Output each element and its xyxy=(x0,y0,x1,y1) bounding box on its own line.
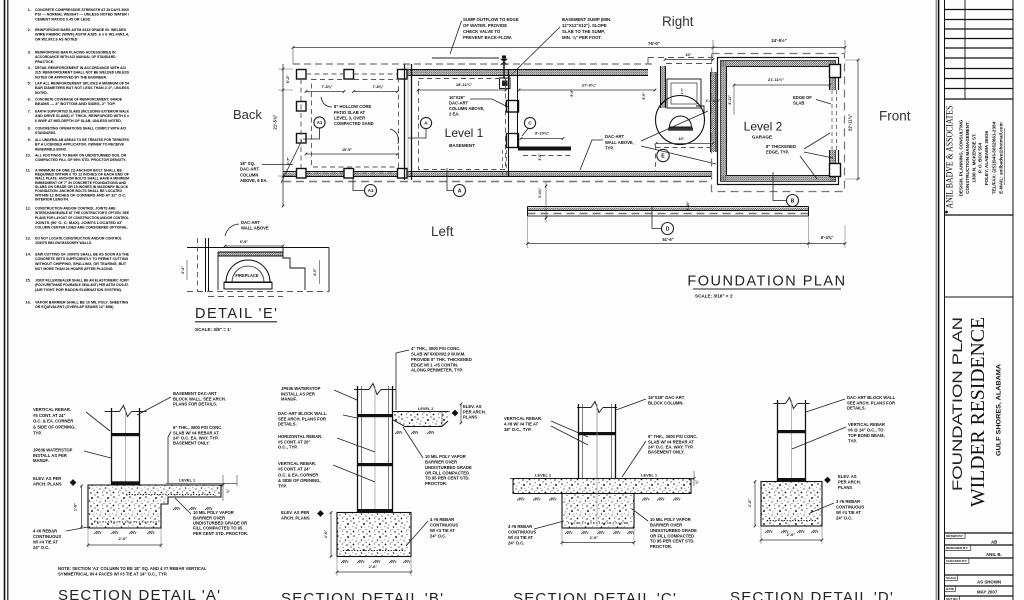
svg-text:10': 10' xyxy=(678,136,683,141)
svg-text:3'-4⅜": 3'-4⅜" xyxy=(538,188,542,199)
svg-text:24'-5½": 24'-5½" xyxy=(771,38,787,43)
svg-text:BASEMENT: BASEMENT xyxy=(449,143,475,148)
svg-text:SCALE: SCALE xyxy=(946,576,957,580)
svg-text:E-MAIL: anilbadve@hotmail.com: E-MAIL: anilbadve@hotmail.com xyxy=(999,122,1004,193)
svg-text:C: C xyxy=(528,121,532,127)
svg-text:Level 1: Level 1 xyxy=(445,126,484,140)
svg-text:CHECK VALVE TO: CHECK VALVE TO xyxy=(463,29,501,34)
svg-text:OR W2.9X2.9 AS NOTED: OR W2.9X2.9 AS NOTED xyxy=(35,37,77,42)
svg-text:COLUMN: COLUMN xyxy=(240,172,258,177)
svg-text:OR FILL COMPACTED: OR FILL COMPACTED xyxy=(425,470,469,475)
svg-text:10 MIL POLY VAPOR: 10 MIL POLY VAPOR xyxy=(650,517,691,522)
svg-text:SECTION DETAIL 'D': SECTION DETAIL 'D' xyxy=(730,589,894,600)
svg-text:STANDARDS.: STANDARDS. xyxy=(35,130,56,135)
svg-text:Back: Back xyxy=(233,107,262,122)
svg-text:OR FILL COMPACTED: OR FILL COMPACTED xyxy=(650,533,694,538)
svg-text:BARRIER OVER: BARRIER OVER xyxy=(650,522,682,527)
svg-text:MANUF.: MANUF. xyxy=(281,396,297,401)
svg-text:VERTICAL REBAR: VERTICAL REBAR xyxy=(848,422,885,427)
svg-text:PER ARCH.: PER ARCH. xyxy=(838,479,861,484)
svg-text:18" O.C., TYP.: 18" O.C., TYP. xyxy=(504,427,532,432)
svg-text:BASEMENT ONLY.: BASEMENT ONLY. xyxy=(173,441,210,446)
svg-text:AS SHOWN: AS SHOWN xyxy=(977,580,1001,585)
svg-text:NOT MORE THAN 24 HOURS AFTER P: NOT MORE THAN 24 HOURS AFTER PLACING. xyxy=(35,266,113,271)
svg-text:51'-6": 51'-6" xyxy=(662,237,673,242)
svg-text:#5 CONT. AT 24": #5 CONT. AT 24" xyxy=(33,413,65,418)
svg-text:SECTION DETAIL 'C': SECTION DETAIL 'C' xyxy=(513,590,677,600)
svg-text:DAC-ART: DAC-ART xyxy=(449,101,469,106)
svg-text:CONTINUOUS: CONTINUOUS xyxy=(430,522,458,527)
svg-text:DRAWN BY:: DRAWN BY: xyxy=(946,534,964,538)
svg-text:WALL ABOVE,: WALL ABOVE, xyxy=(605,140,634,145)
svg-text:W/ #4 TIE AT: W/ #4 TIE AT xyxy=(33,539,58,544)
svg-text:CONTINUOUS: CONTINUOUS xyxy=(836,504,864,509)
svg-text:2'-6": 2'-6" xyxy=(369,564,378,569)
svg-text:16.: 16. xyxy=(25,300,31,305)
svg-text:GULF SHORES, ALABAMA: GULF SHORES, ALABAMA xyxy=(996,363,1003,456)
svg-text:A1: A1 xyxy=(368,188,374,193)
svg-text:SYMMETRICAL IN 4 FACES W/ #3 T: SYMMETRICAL IN 4 FACES W/ #3 TIE AT 14" … xyxy=(58,571,167,576)
svg-text:P. O. BOX 554: P. O. BOX 554 xyxy=(978,143,983,173)
svg-text:TOP BOND BEAM,: TOP BOND BEAM, xyxy=(848,433,885,438)
svg-text:21'-5⅝": 21'-5⅝" xyxy=(273,115,278,130)
svg-text:4 #6 REBAR: 4 #6 REBAR xyxy=(33,529,57,534)
svg-text:4 #6 REBAR: 4 #6 REBAR xyxy=(508,524,532,529)
svg-text:4'-3 1/16": 4'-3 1/16" xyxy=(706,99,721,103)
svg-text:INTERIOR LENGTH.: INTERIOR LENGTH. xyxy=(35,196,69,201)
svg-text:E: E xyxy=(661,153,665,159)
svg-text:7.: 7. xyxy=(28,109,31,114)
svg-text:5.: 5. xyxy=(28,81,31,86)
svg-text:SUMP OUTFLOW TO EDGE: SUMP OUTFLOW TO EDGE xyxy=(463,17,519,22)
svg-text:9.: 9. xyxy=(28,137,31,142)
svg-text:NOTED OR APPROVED BY THE ENGIN: NOTED OR APPROVED BY THE ENGINEER. xyxy=(35,75,107,80)
svg-text:CHECKED BY:: CHECKED BY: xyxy=(946,559,967,563)
svg-text:21'-11½": 21'-11½" xyxy=(768,77,784,82)
svg-text:2'-6": 2'-6" xyxy=(119,536,128,541)
svg-text:B: B xyxy=(791,198,795,204)
svg-text:TEL/FAX: (251)943-5652/661-238: TEL/FAX: (251)943-5652/661-2384 xyxy=(992,121,997,194)
svg-text:ARCH. PLANS: ARCH. PLANS xyxy=(281,515,310,520)
svg-text:3'-0": 3'-0" xyxy=(538,153,542,161)
svg-text:#6 @ 24" O.C., TO: #6 @ 24" O.C., TO xyxy=(848,427,884,432)
svg-text:⅛": ⅛" xyxy=(226,488,230,493)
svg-text:LEVEL 1: LEVEL 1 xyxy=(535,473,552,478)
svg-text:9'-10⅝": 9'-10⅝" xyxy=(535,131,549,136)
svg-text:DETAILS.: DETAILS. xyxy=(847,405,866,410)
svg-text:⅛": ⅛" xyxy=(695,479,699,484)
svg-text:24" O.C.: 24" O.C. xyxy=(33,545,49,550)
svg-text:WILDER RESIDENCE: WILDER RESIDENCE xyxy=(967,317,989,507)
svg-text:ELEV. AS: ELEV. AS xyxy=(838,474,857,479)
svg-text:TYP.: TYP. xyxy=(605,145,614,150)
svg-text:BLOCK COLUMN.: BLOCK COLUMN. xyxy=(648,400,684,405)
svg-text:JOINTS BELOW MASONRY WALLS.: JOINTS BELOW MASONRY WALLS. xyxy=(35,240,92,245)
svg-text:4 #8 W/ #4 TIE AT: 4 #8 W/ #4 TIE AT xyxy=(504,421,539,426)
svg-text:O.C. & EA. CORNER: O.C. & EA. CORNER xyxy=(278,472,318,477)
svg-text:PLANS FOR DETAILS.: PLANS FOR DETAILS. xyxy=(173,401,217,406)
svg-text:6'-4⅝": 6'-4⅝" xyxy=(821,235,834,240)
svg-text:13.: 13. xyxy=(25,236,31,241)
svg-text:1'-6": 1'-6" xyxy=(324,530,328,538)
svg-text:DESIGN, PLANNING, CONSULTING: DESIGN, PLANNING, CONSULTING xyxy=(959,119,964,196)
svg-text:1.: 1. xyxy=(28,7,31,12)
svg-text:EDGE W/ 1 -#5 CONTIN.: EDGE W/ 1 -#5 CONTIN. xyxy=(411,362,458,367)
svg-text:6 WWF AT MID-DEPTH OF SLAB, UN: 6 WWF AT MID-DEPTH OF SLAB, UNLESS NOTED… xyxy=(35,118,122,123)
svg-text:W/ #4 TIE AT: W/ #4 TIE AT xyxy=(430,528,455,533)
svg-text:WALL ABOVE: WALL ABOVE xyxy=(241,226,269,231)
svg-text:7'-8⅝": 7'-8⅝" xyxy=(321,85,332,89)
svg-text:12"X12"X12"). SLOPE: 12"X12"X12"). SLOPE xyxy=(562,23,607,28)
svg-text:SLAB W/ 6X6XW2.9 W.W.M.: SLAB W/ 6X6XW2.9 W.W.M. xyxy=(411,351,465,356)
svg-text:14.: 14. xyxy=(25,252,31,257)
svg-text:A: A xyxy=(424,121,428,127)
svg-text:DAC-ART: DAC-ART xyxy=(605,134,625,139)
svg-text:Left: Left xyxy=(431,224,454,239)
svg-text:W/ #4 TIE AT: W/ #4 TIE AT xyxy=(508,535,533,540)
svg-text:VERTICAL REBAR.: VERTICAL REBAR. xyxy=(278,461,316,466)
svg-text:10 MIL POLY VAPOR: 10 MIL POLY VAPOR xyxy=(425,454,466,459)
svg-text:15'-9": 15'-9" xyxy=(342,148,352,152)
svg-text:3 #6 REBAR: 3 #6 REBAR xyxy=(836,499,860,504)
svg-text:2.: 2. xyxy=(28,27,31,32)
svg-text:22'-11⅜": 22'-11⅜" xyxy=(848,114,853,131)
svg-text:1'-0": 1'-0" xyxy=(680,87,684,94)
svg-text:2'-4": 2'-4" xyxy=(181,266,185,274)
svg-text:O.C. & EA. CORNER: O.C. & EA. CORNER xyxy=(33,419,73,424)
svg-text:NOTED.: NOTED. xyxy=(35,90,48,95)
svg-text:15.: 15. xyxy=(25,278,31,283)
svg-text:UNDISTURBED GRADE: UNDISTURBED GRADE xyxy=(425,465,472,470)
svg-text:3.: 3. xyxy=(28,50,31,55)
svg-text:24" O.C.: 24" O.C. xyxy=(430,533,446,538)
svg-text:12.: 12. xyxy=(25,206,31,211)
svg-text:10.: 10. xyxy=(25,153,31,158)
svg-text:EDGE OF: EDGE OF xyxy=(793,95,812,100)
svg-text:10': 10' xyxy=(685,52,690,57)
svg-text:COLUMN ABOVE,: COLUMN ABOVE, xyxy=(449,106,484,111)
svg-text:8" HOLLOW CORE: 8" HOLLOW CORE xyxy=(334,104,372,109)
svg-text:SECTION DETAIL 'B': SECTION DETAIL 'B' xyxy=(281,590,444,600)
svg-text:A1: A1 xyxy=(317,120,323,125)
svg-text:MANUF.: MANUF. xyxy=(33,458,49,463)
svg-text:UNDISTURBED GRADE: UNDISTURBED GRADE xyxy=(650,528,697,533)
svg-text:#5 CONT. AT 24": #5 CONT. AT 24" xyxy=(278,467,310,472)
svg-text:SECTION DETAIL 'A': SECTION DETAIL 'A' xyxy=(58,587,221,600)
svg-text:COLUMN CENTER LINES ARE CONSID: COLUMN CENTER LINES ARE CONSIDERED OPTIO… xyxy=(35,225,128,230)
svg-text:EDGE, TYP.: EDGE, TYP. xyxy=(766,149,789,154)
svg-text:SLAB: SLAB xyxy=(793,100,804,105)
svg-text:TYP.: TYP. xyxy=(33,430,42,435)
svg-text:PLANS: PLANS xyxy=(838,485,852,490)
svg-text:ALONG PERIMETER, TYP.: ALONG PERIMETER, TYP. xyxy=(411,368,463,373)
svg-text:DATE: DATE xyxy=(946,587,954,591)
svg-text:AB: AB xyxy=(991,540,997,545)
svg-text:COMPACTED FILL OF 95% STD. PRO: COMPACTED FILL OF 95% STD. PROCTOR DENSI… xyxy=(35,157,126,162)
svg-text:CONSTRUCTION MANAGEMENT: CONSTRUCTION MANAGEMENT xyxy=(965,122,970,194)
svg-text:SCALE: 3/16" = 1': SCALE: 3/16" = 1' xyxy=(695,294,733,299)
svg-text:4" THK., 3000 PSI CONC.: 4" THK., 3000 PSI CONC. xyxy=(411,346,460,351)
svg-text:OF WATER. PROVIDE: OF WATER. PROVIDE xyxy=(463,23,507,28)
svg-text:DAC-ART: DAC-ART xyxy=(240,167,260,172)
svg-text:PLANS: PLANS xyxy=(463,414,477,419)
svg-text:DAC-ART: DAC-ART xyxy=(241,220,261,225)
svg-text:BASEMENT SUMP (MIN.: BASEMENT SUMP (MIN. xyxy=(562,17,611,22)
svg-text:1300 N. MCKENZIE ST.: 1300 N. MCKENZIE ST. xyxy=(972,133,977,182)
svg-text:5'-9": 5'-9" xyxy=(642,92,646,100)
svg-text:11.: 11. xyxy=(26,168,31,173)
svg-text:D: D xyxy=(666,226,670,232)
svg-text:TYP.: TYP. xyxy=(278,483,287,488)
svg-text:2 EA.: 2 EA. xyxy=(449,112,459,117)
svg-text:LEVEL 1: LEVEL 1 xyxy=(641,473,658,478)
svg-text:16"X26": 16"X26" xyxy=(449,95,465,100)
svg-text:OR EQUIVALENT (OVERLAP SEAMS 1: OR EQUIVALENT (OVERLAP SEAMS 12" MIN) xyxy=(35,304,114,309)
svg-text:O.C., TYP.: O.C., TYP. xyxy=(278,444,298,449)
svg-text:BASEMENT ONLY.: BASEMENT ONLY. xyxy=(648,450,685,455)
svg-text:1'-6": 1'-6" xyxy=(74,503,78,511)
svg-text:CONTINUOUS: CONTINUOUS xyxy=(33,534,61,539)
svg-text:BEAMS --- 3" BOTTOM AND SIDES,: BEAMS --- 3" BOTTOM AND SIDES, 2" TOP. xyxy=(35,101,116,106)
svg-text:BARRIER OVER: BARRIER OVER xyxy=(425,459,457,464)
svg-text:RENEWABLE BOND.: RENEWABLE BOND. xyxy=(35,147,67,152)
svg-text:ANIL B.: ANIL B. xyxy=(986,552,1002,557)
svg-text:FIREPLACE: FIREPLACE xyxy=(235,273,258,278)
svg-text:DESIGNED BY:: DESIGNED BY: xyxy=(946,546,968,550)
svg-text:TYP.: TYP. xyxy=(848,438,857,443)
svg-text:CONTINUOUS: CONTINUOUS xyxy=(508,529,536,534)
svg-text:W/ #4 TIE AT: W/ #4 TIE AT xyxy=(836,510,861,515)
svg-text:18'-11¾": 18'-11¾" xyxy=(456,82,472,87)
svg-text:& SIDE OF OPENING,: & SIDE OF OPENING, xyxy=(33,424,76,429)
svg-text:27'-0⅜": 27'-0⅜" xyxy=(582,83,596,88)
svg-text:LEVEL 2: LEVEL 2 xyxy=(418,407,433,411)
svg-text:PROCTOR.: PROCTOR. xyxy=(650,544,672,549)
svg-text:18" SQ.: 18" SQ. xyxy=(240,161,255,166)
svg-text:8.: 8. xyxy=(28,126,31,131)
svg-text:DETAILS.: DETAILS. xyxy=(278,421,297,426)
svg-text:FOLEY, ALABAMA 36536: FOLEY, ALABAMA 36536 xyxy=(984,130,989,185)
svg-text:GARAGE: GARAGE xyxy=(752,135,772,140)
svg-text:4'-11": 4'-11" xyxy=(728,95,732,105)
svg-text:VERTICAL REBAR.: VERTICAL REBAR. xyxy=(33,407,71,412)
svg-text:PATIO SLAB AT: PATIO SLAB AT xyxy=(334,110,365,115)
svg-text:2'-6": 2'-6" xyxy=(590,535,599,540)
svg-text:PROVIDE 8" THK. THICKENED: PROVIDE 8" THK. THICKENED xyxy=(411,357,472,362)
svg-text:ABOVE, 8 EA.: ABOVE, 8 EA. xyxy=(240,178,268,183)
svg-text:FOUNDATION PLAN: FOUNDATION PLAN xyxy=(949,317,965,491)
svg-text:(AIR TIGHT FOR RADON ELIMINATI: (AIR TIGHT FOR RADON ELIMINATION SYSTEM)… xyxy=(35,287,122,292)
svg-text:7'-8⅝": 7'-8⅝" xyxy=(372,85,383,89)
svg-text:FOUNDATION PLAN: FOUNDATION PLAN xyxy=(687,274,846,290)
svg-text:SCALE: 3/8" = 1': SCALE: 3/8" = 1' xyxy=(195,327,231,332)
svg-text:LEVEL 3, OVER: LEVEL 3, OVER xyxy=(334,115,365,120)
svg-text:2'-0": 2'-0" xyxy=(787,532,796,537)
svg-text:76'-0": 76'-0" xyxy=(648,41,660,46)
svg-text:LEVEL 1: LEVEL 1 xyxy=(179,478,196,483)
svg-text:MAY 2007: MAY 2007 xyxy=(977,590,998,595)
svg-text:4'-0": 4'-0" xyxy=(313,268,317,276)
svg-text:DETAIL 'E': DETAIL 'E' xyxy=(195,306,278,322)
svg-text:SLAB TO THE SUMP,: SLAB TO THE SUMP, xyxy=(562,29,605,34)
svg-text:PRACTICE.: PRACTICE. xyxy=(35,59,54,64)
svg-text:PER CENT STD. PROCTOR.: PER CENT STD. PROCTOR. xyxy=(193,531,248,536)
svg-text:Level 2: Level 2 xyxy=(744,120,783,134)
svg-text:A: A xyxy=(458,188,462,194)
svg-text:Right: Right xyxy=(662,14,694,29)
svg-text:BAR DIAMETERS BUT NOT LESS THA: BAR DIAMETERS BUT NOT LESS THAN 2'-0", U… xyxy=(35,85,129,90)
svg-text:3'-10": 3'-10" xyxy=(686,201,690,211)
svg-text:5'-9": 5'-9" xyxy=(570,89,574,97)
svg-text:TO 95 PER CENT STD.: TO 95 PER CENT STD. xyxy=(425,476,470,481)
svg-text:COMPACTED SAND: COMPACTED SAND xyxy=(334,121,374,126)
svg-text:CEMENT RATIOS 0.45 OR LESS: CEMENT RATIOS 0.45 OR LESS xyxy=(35,17,90,22)
svg-text:PROCTOR.: PROCTOR. xyxy=(425,481,447,486)
svg-text:1'-6": 1'-6" xyxy=(748,499,752,507)
svg-text:VERTICAL REBAR.: VERTICAL REBAR. xyxy=(504,416,542,421)
svg-text:6'-9": 6'-9" xyxy=(240,240,248,244)
svg-text:PREVENT BACK-FLOW.: PREVENT BACK-FLOW. xyxy=(463,35,512,40)
svg-text:8" THICKENED: 8" THICKENED xyxy=(766,144,796,149)
svg-text:6.: 6. xyxy=(28,97,31,102)
svg-text:4 #6 REBAR: 4 #6 REBAR xyxy=(430,517,454,522)
svg-text:ANIL BADVE & ASSOCIATES: ANIL BADVE & ASSOCIATES xyxy=(945,106,955,209)
svg-text:6'-2": 6'-2" xyxy=(286,75,290,83)
svg-text:24" O.C.: 24" O.C. xyxy=(836,515,852,520)
svg-text:Front: Front xyxy=(879,109,911,124)
svg-text:ARCH. PLANS: ARCH. PLANS xyxy=(33,481,62,486)
svg-text:TO 95 PER CENT STD.: TO 95 PER CENT STD. xyxy=(650,539,695,544)
svg-text:24" O.C.: 24" O.C. xyxy=(508,540,524,545)
svg-text:6'-7": 6'-7" xyxy=(287,157,291,165)
svg-text:& SIDE OF OPENING,: & SIDE OF OPENING, xyxy=(278,478,321,483)
svg-text:MIN. ⅛" PER FOOT.: MIN. ⅛" PER FOOT. xyxy=(562,35,602,40)
svg-text:4.: 4. xyxy=(28,65,31,70)
